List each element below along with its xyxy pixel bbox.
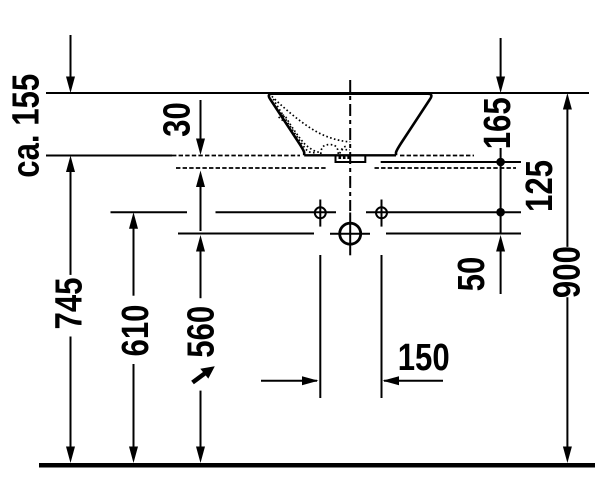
svg-text:900: 900 [547,246,589,298]
svg-text:50: 50 [451,257,493,292]
svg-text:745: 745 [49,278,91,330]
svg-text:560: 560 [180,306,222,358]
svg-text:150: 150 [398,337,450,379]
svg-text:610: 610 [115,305,157,357]
svg-text:125: 125 [519,160,561,212]
svg-text:ca. 155: ca. 155 [6,74,48,178]
svg-text:30: 30 [157,102,199,137]
svg-text:165: 165 [477,97,519,149]
